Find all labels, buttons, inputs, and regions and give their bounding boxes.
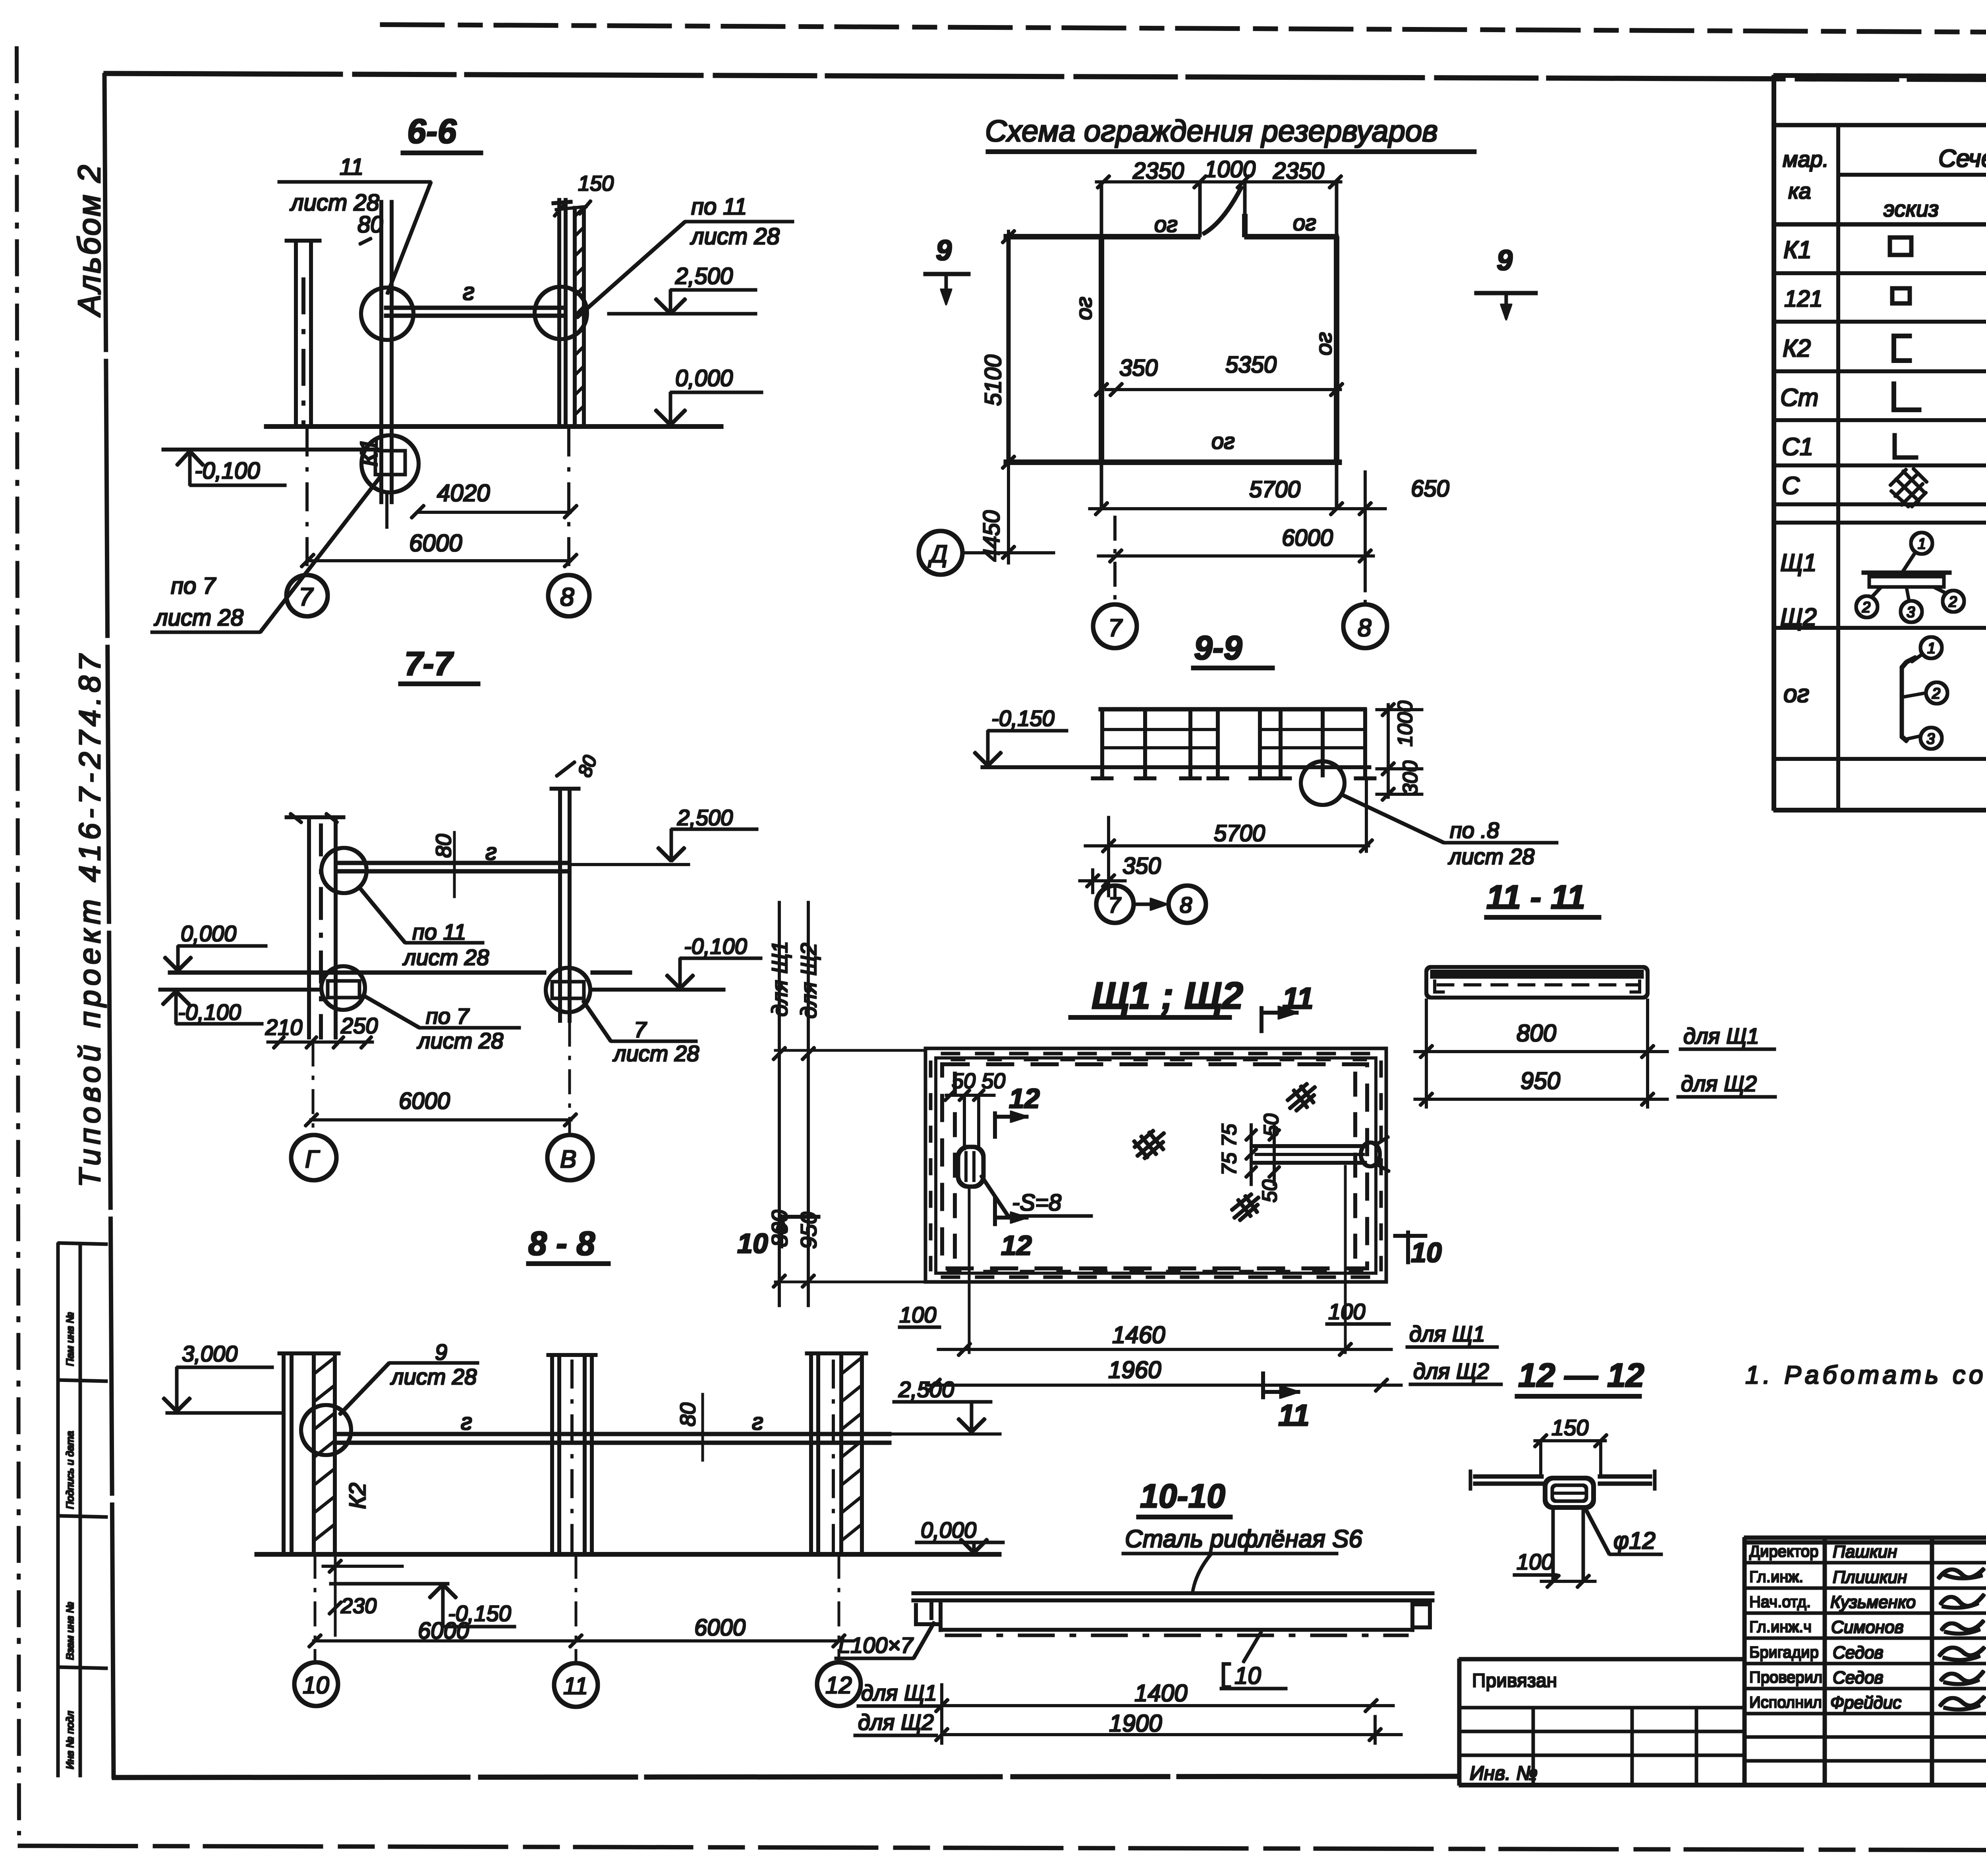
svg-text:мар.: мар. [1783,147,1829,172]
svg-text:2,500: 2,500 [675,263,733,289]
tray right cap [1412,1604,1430,1627]
ground line 9-9 [981,766,1371,769]
svg-text:Альбом 2: Альбом 2 [71,163,107,317]
svg-text:1460: 1460 [1112,1322,1165,1348]
svg-text:6000: 6000 [409,530,462,556]
dim 350 (9-9) [1122,853,1161,879]
80 dim at post top [357,212,383,237]
header texts [1783,139,1986,222]
clamp [1545,1478,1594,1507]
svg-text:ог: ог [1783,680,1809,708]
svg-text:Сталь рифлёная S6: Сталь рифлёная S6 [1125,1525,1362,1553]
axis circle Г [291,1135,336,1180]
elevation -0.100 [195,458,260,484]
leader по 11 / лист 28 [690,194,780,249]
svg-text:Проверил: Проверил [1749,1669,1822,1686]
9-9 title [1194,629,1242,666]
svg-text:350: 350 [1122,853,1161,879]
dim 5700 (9-9) [1214,820,1265,846]
svg-text:11: 11 [340,154,363,180]
svg-text:6000: 6000 [418,1618,469,1644]
section 6-6 title [407,112,457,151]
sketch mesh С [1890,468,1927,507]
axis circle 12 [817,1662,861,1706]
svg-text:ог: ог [1293,210,1316,235]
svg-text:С1: С1 [1782,433,1813,461]
80 dim (8-8) [676,1403,700,1426]
left fence vertical [1007,237,1010,462]
svg-text:8: 8 [560,583,574,611]
left bar [1474,1475,1543,1478]
sketch square K1 [1890,237,1911,255]
extension lines [1426,999,1428,1108]
leader по .8 / лист 28 [1448,818,1534,869]
svg-text:Щ1: Щ1 [1780,549,1817,577]
svg-text:К2: К2 [1783,335,1811,362]
svg-text:Бригадир: Бригадир [1749,1644,1819,1661]
section 7-7 title [404,645,454,682]
right dim 1000 300 [1394,701,1422,795]
svg-text:для Щ2: для Щ2 [858,1710,934,1735]
left double column [285,241,321,428]
svg-text:2: 2 [1948,594,1957,610]
bolt detail left: slot [964,1095,966,1150]
svg-text:6000: 6000 [399,1088,450,1114]
svg-text:Инв № подл: Инв № подл [64,1711,76,1769]
detail circle 9-9 [1301,761,1345,805]
К2 label [345,1483,371,1509]
table outer box [1774,75,1986,810]
svg-text:0,000: 0,000 [181,921,236,946]
svg-text:9: 9 [1497,245,1513,276]
section mark 12 top [1009,1083,1040,1114]
plan title [985,114,1438,148]
ог labels [1071,210,1336,454]
sketch channel K2 [1894,336,1911,361]
frame bottom border [112,1776,1457,1778]
bolt right axis extension [1345,1166,1346,1353]
svg-text:1: 1 [1927,640,1936,657]
svg-text:7-7: 7-7 [404,645,454,682]
svg-text:75 75: 75 75 [1218,1123,1241,1175]
80 dim 7-7 [432,834,456,858]
svg-text:для Щ2: для Щ2 [1413,1359,1489,1384]
right column hatched [552,199,584,428]
inner left fence vertical [1100,182,1103,509]
svg-text:-0,100: -0,100 [684,934,747,959]
sketch square 121 [1892,288,1910,303]
svg-text:1: 1 [1918,536,1926,552]
tray channel body [939,1600,942,1631]
svg-text:Гл.инж.ч: Гл.инж.ч [1749,1618,1812,1636]
extension vertical [941,1684,943,1744]
leader -S=8 [1012,1190,1061,1216]
svg-text:100: 100 [1328,1299,1365,1324]
bolt detail left: 50 50 dim [952,1069,1005,1093]
svg-text:50: 50 [1258,1179,1281,1202]
svg-text:950: 950 [1520,1067,1560,1094]
svg-text:5350: 5350 [1225,352,1277,378]
svg-text:Щ2: Щ2 [1780,604,1817,631]
dim 5700 650 [1249,476,1449,502]
230 dim [340,1594,377,1618]
axis circle 10 [294,1662,338,1706]
svg-text:г: г [461,1409,472,1435]
dim 6000 6000 (8-8) [418,1615,746,1644]
svg-text:12: 12 [1001,1230,1032,1261]
dim 1400 для Щ1 [861,1680,937,1705]
svg-text:лист 28: лист 28 [390,1364,477,1389]
left dims 5100 4450 [979,355,1006,562]
dim 6000 (7-7) [399,1088,450,1114]
axis circle 7 [286,575,328,616]
weld mark right bottom [1231,1194,1259,1221]
ground line [265,425,723,428]
column middle (axis 11) [547,1355,597,1554]
junction circle right [535,287,587,339]
dim 1960 для Щ2 [1108,1357,1161,1383]
signature labels [1749,1543,1822,1711]
svg-text:лист 28: лист 28 [417,1028,503,1053]
svg-text:3: 3 [1926,731,1935,747]
frame left border [104,73,114,1778]
sketch Щ panel [1862,571,1951,574]
svg-text:лист 28: лист 28 [290,190,379,216]
K1 label [355,438,383,467]
data row lines [1774,273,1986,759]
leader по 11 / лист 28 (7-7) [402,919,489,970]
axis circle Д [919,531,962,575]
svg-text:лист 28: лист 28 [154,605,243,631]
svg-text:ка: ка [1788,178,1811,203]
svg-text:лист 28: лист 28 [612,1041,699,1066]
outer bottom dashed border [18,1846,1986,1851]
dim 100 right [1328,1299,1365,1324]
fence top rail [1099,708,1366,711]
right post 7-7 [550,789,580,1022]
section mark 10 right [1411,1237,1442,1268]
note 1 [1745,1361,1986,1389]
svg-text:Д: Д [928,540,948,568]
svg-text:9: 9 [936,235,952,266]
svg-text:Плишкин: Плишкин [1833,1567,1907,1587]
axis lines to circles 10 11 12 [314,1554,316,1662]
brick band left [929,1061,932,1271]
brick band top [941,1054,1370,1060]
dim 150 [1551,1415,1588,1440]
right column hatch [575,207,584,415]
sketch angle Ст [1894,382,1921,410]
elevation 3,000 [182,1341,238,1366]
svg-text:эскиз: эскиз [1884,196,1939,221]
elevation -0,100 (7-7 left) [178,1000,241,1025]
svg-text:10: 10 [303,1672,329,1698]
svg-text:Взам инв №: Взам инв № [64,1602,76,1660]
section 8-8 title [528,1225,595,1262]
outer left dash-dot border [17,47,19,1835]
axis circle 8 (9-9) [1169,886,1206,923]
svg-text:5100: 5100 [980,355,1006,406]
axis circle В [547,1135,593,1180]
panel second dashed verticals [954,1072,956,1261]
weld mark right top [1287,1083,1316,1111]
junction circle rail-left [321,848,367,893]
svg-text:Щ1 ; Щ2: Щ1 ; Щ2 [1092,975,1243,1017]
dims 210 250 [265,1013,378,1040]
svg-text:г: г [463,278,475,305]
svg-text:Пам инв №: Пам инв № [64,1312,76,1366]
svg-text:12 — 12: 12 — 12 [1518,1357,1644,1394]
svg-text:-0,100: -0,100 [195,458,260,484]
svg-text:350: 350 [1119,355,1158,381]
left margin rotated project label [71,163,107,1187]
svg-text:для Щ2: для Щ2 [1681,1071,1757,1096]
svg-text:12: 12 [825,1672,852,1698]
post feet [1092,777,1376,780]
svg-text:11: 11 [1278,1399,1310,1432]
svg-text:L100×7: L100×7 [838,1633,914,1658]
svg-text:φ12: φ12 [1613,1527,1656,1554]
svg-text:5700: 5700 [1214,820,1265,846]
привязан block [1459,1659,1745,1785]
svg-text:2350: 2350 [1273,158,1324,184]
brick band bottom [941,1272,1370,1277]
svg-text:0,000: 0,000 [921,1517,976,1542]
svg-text:6000: 6000 [694,1615,746,1641]
leader 7 / лист 28 (7-7 right) [612,1017,699,1066]
svg-text:1960: 1960 [1108,1357,1161,1383]
svg-text:6-6: 6-6 [407,112,457,151]
right post top 80 tick [574,753,601,780]
svg-text:800: 800 [1517,1020,1556,1046]
dim 950 для Щ2 [1520,1067,1560,1094]
svg-text:10: 10 [737,1228,768,1259]
rail г (8-8) [336,1434,891,1443]
channel profile [1426,967,1648,998]
svg-text:1900: 1900 [1109,1710,1162,1737]
svg-text:для Щ1: для Щ1 [1683,1023,1759,1048]
svg-text:650: 650 [1411,476,1449,502]
svg-text:100: 100 [1517,1549,1553,1574]
svg-text:Симонов: Симонов [1831,1617,1904,1637]
svg-text:10-10: 10-10 [1140,1477,1225,1515]
svg-text:ог: ог [1211,428,1235,454]
dims 75 75 50 50 right detail [1218,1114,1283,1202]
svg-text:230: 230 [340,1594,377,1618]
dim 100 bottom [1517,1549,1553,1574]
svg-text:1400: 1400 [1134,1680,1187,1706]
junction circle left [361,288,413,340]
svg-text:г: г [485,839,497,865]
svg-text:ог: ог [1311,332,1336,355]
section mark 12 bottom [1001,1230,1032,1261]
bottom fence [1004,460,1341,465]
svg-text:100: 100 [899,1302,936,1327]
svg-text:В: В [560,1146,576,1173]
svg-text:ог: ог [1154,212,1178,237]
svg-text:Исполнил: Исполнил [1749,1694,1822,1711]
dim 6000 (plan) [1282,525,1333,551]
svg-text:Ст: Ст [1780,384,1818,411]
axis circle 7 (9-9) [1096,886,1134,923]
elevation -0,150 (9-9) [991,706,1055,731]
svg-text:Сечение: Сечение [1938,145,1986,172]
ground line 7-7 [168,971,546,974]
junction circle bottom [361,435,419,492]
dim 1460 для Щ1 [1112,1322,1165,1348]
dim 800 для Щ1 [1517,1020,1556,1046]
rod [1552,1507,1554,1580]
elevation -0,150 (8-8) [448,1601,511,1626]
axis circle 8 [548,575,589,616]
post K1 [381,201,392,504]
axis circle 7 (plan) [1093,604,1137,648]
svg-text:для Щ1: для Щ1 [767,941,792,1017]
sketch angle С1 [1895,434,1918,457]
svg-text:по 11: по 11 [412,919,466,944]
svg-text:Инв. №: Инв. № [1470,1762,1538,1784]
panel left vertical dim lines [779,901,780,1307]
section mark 10 left (near 8-8) [737,1228,768,1259]
top fence line with gate [1004,235,1200,239]
dim 6000 [409,530,462,556]
svg-text:8 - 8: 8 - 8 [528,1225,595,1262]
svg-text:8: 8 [1180,892,1192,917]
svg-text:4450: 4450 [979,510,1005,562]
fence posts [1102,709,1365,777]
svg-text:лист 28: лист 28 [402,945,489,970]
11-11 title [1486,878,1585,916]
leader по 7 / лист 28 [154,573,243,631]
column K2 (left, hatched) [278,1353,340,1554]
axis line 8 [568,428,570,575]
svg-text:7: 7 [1108,614,1123,642]
svg-text:ог: ог [1071,297,1096,320]
detail circle on K2 [301,1405,351,1455]
tray left angle [916,1604,941,1624]
svg-text:8: 8 [1358,614,1372,642]
svg-text:9: 9 [435,1339,447,1365]
leader по 7 / лист 28 (7-7) [417,1004,503,1053]
rail г 7-7 [338,863,567,871]
ground line (8-8) [255,1553,1001,1556]
svg-text:800: 800 [767,1210,792,1247]
gate leaf swing [1203,187,1242,234]
svg-text:2,500: 2,500 [677,805,733,830]
svg-text:по 7: по 7 [171,573,216,599]
weld mark center [1134,1130,1165,1159]
column verticals [1838,125,1986,810]
gate post lines [1199,182,1201,237]
svg-text:С: С [1782,472,1800,500]
axis lines 7-7 [312,1042,314,1135]
svg-text:50 50: 50 50 [952,1069,1005,1093]
left bottom stamp table [58,1243,107,1777]
svg-text:3: 3 [1907,604,1915,621]
right fence vertical [1335,182,1338,509]
svg-text:Фрейдис: Фрейдис [1830,1693,1901,1712]
elevation 0.000 [675,365,733,391]
svg-text:7: 7 [299,583,314,611]
svg-text:Г: Г [305,1146,320,1173]
марка column labels [1780,236,1823,708]
svg-text:Привязан: Привязан [1472,1670,1557,1691]
svg-text:Пашкин: Пашкин [1833,1542,1897,1561]
svg-text:лист 28: лист 28 [690,224,780,249]
panel inner rect [936,1058,1376,1273]
signature scribbles [1938,1569,1984,1710]
bolt tube right [1251,1146,1366,1163]
header band lines [1838,174,1986,176]
top dim line 2350 1000 2350 [1132,156,1324,184]
bolt left axis extension [968,1187,970,1353]
sketch ог [1902,662,1907,741]
10-10 title [1140,1477,1225,1515]
svg-text:3,000: 3,000 [182,1341,238,1366]
svg-text:-S=8: -S=8 [1012,1190,1061,1216]
svg-text:Седов: Седов [1833,1643,1884,1662]
main title block border [1459,1538,1986,1785]
svg-text:150: 150 [578,172,614,195]
svg-text:Гл.инж.: Гл.инж. [1749,1568,1803,1586]
svg-text:2350: 2350 [1132,158,1184,184]
elevation 0,000 (7-7) [181,921,236,946]
mid dim 350 5350 [1119,352,1277,381]
label Сталь рифлёная S6 [1125,1525,1362,1553]
svg-text:г: г [752,1409,763,1435]
dim 100 left [899,1302,936,1327]
svg-text:80: 80 [676,1403,700,1426]
svg-text:Седов: Седов [1833,1668,1884,1687]
svg-text:150: 150 [1551,1415,1588,1440]
right bar [1598,1475,1652,1478]
lower foundation line [162,448,382,451]
frame top border [104,73,1986,81]
svg-text:11: 11 [563,1673,588,1699]
elevation 2,500 (8-8 right) [898,1377,954,1402]
panel outer rect [925,1048,1386,1282]
dim 4020 [437,480,490,506]
axis circle 8 (plan) [1343,604,1387,648]
svg-text:Типовой проект 416-7-274.87: Типовой проект 416-7-274.87 [73,650,107,1187]
svg-text:2: 2 [1862,599,1870,616]
leader 11 / лист 28 [290,154,379,216]
svg-text:300: 300 [1399,760,1422,795]
svg-text:121: 121 [1784,286,1823,312]
svg-text:Нач.отд.: Нач.отд. [1749,1593,1811,1611]
svg-text:5700: 5700 [1249,477,1300,502]
elevation 2.500 [675,263,733,289]
leader 9 / лист 28 (8-8) [390,1339,477,1389]
svg-text:11 - 11: 11 - 11 [1486,878,1585,916]
label [ 10 [1234,1662,1261,1689]
svg-text:по .8: по .8 [1450,818,1499,843]
title row bottom [1774,124,1986,127]
12-12 title [1518,1357,1644,1394]
svg-text:Директор: Директор [1749,1543,1818,1560]
svg-text:250: 250 [340,1013,378,1038]
svg-text:50: 50 [1260,1114,1283,1137]
signature names [1830,1542,1916,1712]
svg-text:1000: 1000 [1394,701,1417,747]
axis line 7 [306,428,308,575]
tray top plate [912,1592,1434,1595]
svg-text:Подпись и дата: Подпись и дата [64,1431,76,1509]
svg-text:Схема ограждения резервуаров: Схема ограждения резервуаров [985,114,1438,148]
panel title Щ1 ; Щ2 [1092,975,1243,1017]
elevation -0,100 (7-7 right) [684,934,747,959]
section mark 11 bottom [1278,1399,1310,1432]
